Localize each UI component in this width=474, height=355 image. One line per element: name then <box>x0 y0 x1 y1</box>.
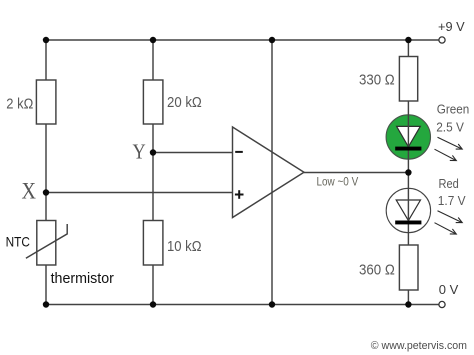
svg-text:2.5 V: 2.5 V <box>436 120 464 135</box>
LED D2 cathode bar <box>395 221 421 225</box>
op-amp U1 inverting pin mark <box>235 151 243 153</box>
svg-text:X: X <box>22 178 37 203</box>
svg-text:10 kΩ: 10 kΩ <box>167 238 202 255</box>
LED D1 triangle <box>397 126 421 146</box>
junction top of middle branch <box>150 37 156 43</box>
LED D1 green body <box>386 115 430 159</box>
junction bottom of left branch <box>43 301 49 307</box>
svg-text:2 kΩ: 2 kΩ <box>6 96 33 113</box>
svg-text:thermistor: thermistor <box>51 271 114 287</box>
junction bottom of LED branch <box>405 301 411 307</box>
junction top of left branch <box>43 37 49 43</box>
svg-text:© www.petervis.com: © www.petervis.com <box>371 340 467 352</box>
resistor R5 360 body <box>399 245 418 290</box>
junction top of LED branch <box>405 37 411 43</box>
terminal +9V <box>439 37 445 43</box>
svg-text:20 kΩ: 20 kΩ <box>167 94 202 111</box>
LED D1 cathode bar <box>395 147 421 151</box>
svg-text:Red: Red <box>439 176 459 191</box>
resistor R3 10k body <box>143 221 163 266</box>
LED D2 triangle <box>396 200 420 221</box>
wire op-amp supply <box>271 40 273 305</box>
LED D2 light arrows <box>435 211 463 234</box>
resistor R2 20k body <box>143 80 163 124</box>
node Y junction <box>150 149 156 155</box>
wire middle branch <box>152 40 154 305</box>
wire bottom rail <box>46 304 439 306</box>
wire node Y to inverting input <box>153 152 233 154</box>
svg-text:NTC: NTC <box>6 234 30 250</box>
svg-text:330 Ω: 330 Ω <box>359 72 395 89</box>
LED D1 light arrows <box>435 137 463 160</box>
svg-text:360 Ω: 360 Ω <box>359 262 395 279</box>
svg-text:+9 V: +9 V <box>438 19 465 34</box>
terminal 0V <box>439 301 445 307</box>
svg-text:0 V: 0 V <box>439 282 459 297</box>
junction top of supply branch <box>269 37 275 43</box>
wire left branch <box>45 40 47 305</box>
wire LED branch <box>407 40 409 305</box>
wire node X to non-inverting input <box>46 192 233 194</box>
svg-text:Y: Y <box>133 140 146 164</box>
svg-text:1.7 V: 1.7 V <box>438 193 466 208</box>
op-amp U1 body <box>233 127 305 218</box>
thermistor TH1 body <box>37 221 56 266</box>
svg-text:Low ~0 V: Low ~0 V <box>317 176 359 188</box>
resistor R1 2k body <box>36 80 56 124</box>
wire top rail <box>46 39 439 41</box>
junction bottom of middle branch <box>150 301 156 307</box>
wire op-amp output <box>304 172 408 174</box>
junction output to LEDs <box>405 169 411 175</box>
junction bottom of supply branch <box>269 301 275 307</box>
node X junction <box>43 189 49 195</box>
LED D2 red body <box>386 188 430 232</box>
svg-text:Green: Green <box>437 102 470 117</box>
thermistor TH1 stroke <box>26 224 67 258</box>
resistor R4 330 body <box>399 57 417 102</box>
op-amp U1 non-inverting pin mark <box>235 190 244 199</box>
